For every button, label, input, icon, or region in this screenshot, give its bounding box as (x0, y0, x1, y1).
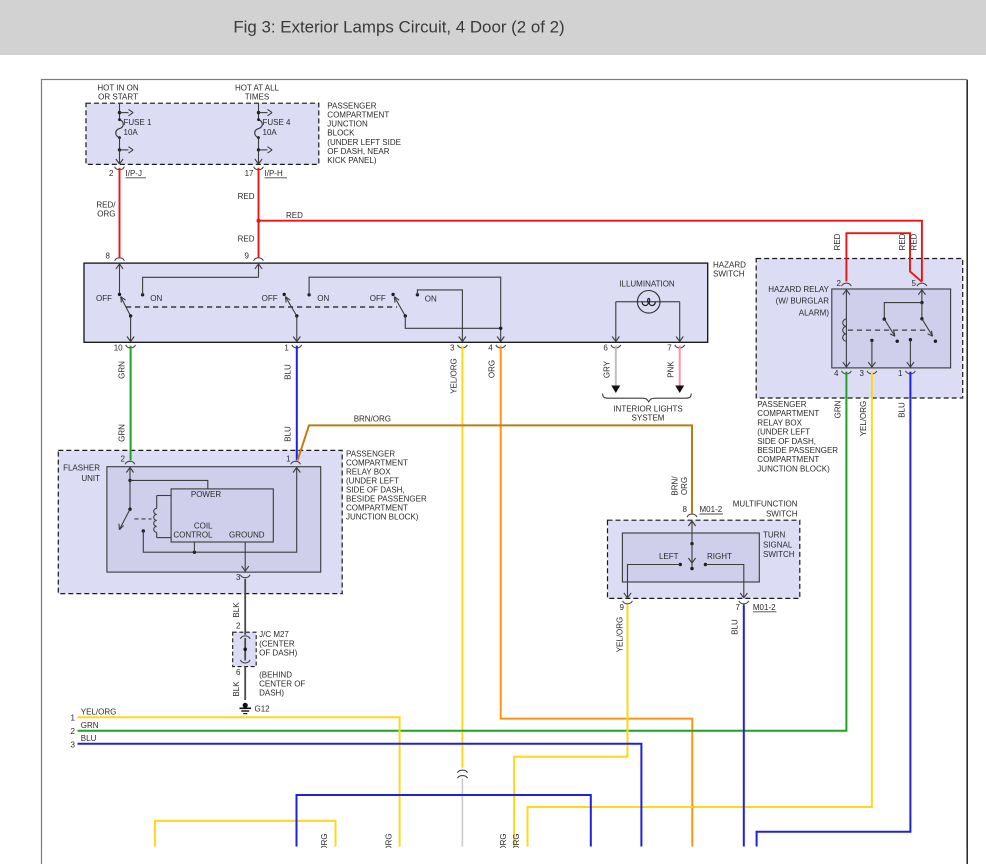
fuse F4 (255, 103, 272, 164)
svg-text:CENTER OF: CENTER OF (259, 680, 305, 689)
svg-text:4: 4 (834, 369, 839, 378)
wire GRN relay pin4 to line 2 (78, 372, 847, 731)
label TURN SIGNAL SWITCH (763, 530, 795, 559)
svg-text:(W/ BURGLAR: (W/ BURGLAR (776, 297, 830, 306)
svg-text:9: 9 (620, 603, 625, 612)
svg-text:HAZARD: HAZARD (713, 260, 746, 269)
svg-text:HOT AT ALL: HOT AT ALL (235, 84, 280, 93)
relay pin3 column (868, 339, 875, 368)
wire RED loop pin2 to pin5 (833, 233, 922, 282)
blue bridge wire (297, 795, 591, 847)
svg-text:DASH): DASH) (259, 689, 284, 698)
left contact to pin 9 (624, 563, 682, 598)
svg-text:PNK: PNK (667, 361, 676, 378)
flasher pin 1 (286, 455, 300, 465)
svg-text:MULTIFUNCTION: MULTIFUNCTION (733, 499, 798, 508)
junction block note (327, 101, 401, 165)
svg-text:1: 1 (284, 343, 289, 352)
relay pin 2 (837, 279, 852, 288)
svg-text:HAZARD RELAY: HAZARD RELAY (768, 285, 829, 294)
svg-text:2: 2 (837, 279, 842, 288)
svg-text:ORG: ORG (488, 360, 497, 378)
svg-text:FUSE 4: FUSE 4 (263, 118, 292, 127)
svg-text:CONTROL: CONTROL (173, 531, 213, 540)
flasher switch (119, 480, 145, 532)
wire ORG pin4 down right down (488, 346, 693, 847)
svg-text:(UNDER LEFT: (UNDER LEFT (757, 428, 810, 437)
lamp leads to pins 6 and 7 (612, 302, 683, 342)
svg-text:BRN/ORG: BRN/ORG (354, 415, 391, 424)
relay switch A (883, 289, 926, 343)
behind dash note (259, 671, 305, 698)
flasher dashed link (135, 518, 152, 520)
svg-text:GRN: GRN (833, 400, 842, 418)
line 2 GRN (71, 721, 99, 736)
wire BLU relay pin1 (757, 372, 911, 847)
svg-text:ON: ON (317, 294, 329, 303)
svg-text:(UNDER LEFT: (UNDER LEFT (346, 477, 399, 486)
svg-text:SWITCH: SWITCH (713, 270, 745, 279)
line 1 YEL/ORG (71, 707, 400, 846)
svg-text:BLU: BLU (284, 364, 293, 380)
svg-text:3: 3 (450, 343, 455, 352)
svg-text:BLOCK: BLOCK (327, 129, 355, 138)
flasher power relay box (173, 490, 264, 540)
svg-text:OF DASH, NEAR: OF DASH, NEAR (327, 147, 389, 156)
svg-text:BLK: BLK (232, 602, 241, 618)
svg-text:OF DASH): OF DASH) (259, 649, 298, 658)
junction connector J/C M27 (240, 636, 250, 663)
wire RED/ORG fuse1 to hazard pin 8 (96, 168, 119, 258)
svg-text:8: 8 (683, 505, 688, 514)
faded wire continuation (461, 779, 463, 847)
svg-text:PASSENGER: PASSENGER (346, 450, 395, 459)
svg-text:ORG: ORG (97, 210, 115, 219)
flasher pin 2 (121, 455, 135, 481)
svg-text:RED: RED (898, 233, 907, 250)
relay pin1 column (907, 338, 914, 368)
relay coil line pin2-pin4 (843, 289, 850, 368)
J/C M27 note (259, 630, 298, 658)
wire GRY pin6 (603, 346, 621, 393)
flasher power relay box frame (171, 489, 273, 542)
svg-text:7: 7 (667, 343, 672, 352)
svg-text:COMPARTMENT: COMPARTMENT (346, 459, 408, 468)
svg-text:TIMES: TIMES (245, 93, 269, 102)
relay box note (757, 400, 838, 474)
svg-text:G12: G12 (255, 705, 271, 714)
bottom wire labels (320, 833, 521, 851)
svg-text:RED: RED (238, 235, 255, 244)
svg-text:5: 5 (912, 279, 917, 288)
bottom clip (42, 848, 966, 864)
coil control junction (193, 542, 196, 554)
hazard pin 3 (450, 343, 467, 352)
svg-text:YEL/ORG: YEL/ORG (859, 401, 868, 437)
svg-text:BLK: BLK (232, 681, 241, 697)
svg-text:1: 1 (898, 369, 903, 378)
svg-text:10A: 10A (263, 128, 278, 137)
svg-text:LEFT: LEFT (659, 552, 679, 561)
wire RED junction to hazard relay pin 5 (259, 211, 922, 282)
connector 2 I/P-J (109, 167, 146, 178)
svg-text:8: 8 (106, 252, 111, 261)
connector 8 M01-2 (683, 505, 723, 517)
relay switch B (920, 303, 937, 343)
wire YEL/ORG relay pin3 (528, 372, 872, 847)
svg-text:4: 4 (488, 343, 493, 352)
svg-text:BESIDE PASSENGER: BESIDE PASSENGER (346, 495, 427, 504)
hazard pin 8 (106, 252, 125, 295)
svg-text:SWITCH: SWITCH (763, 550, 795, 559)
svg-text:BESIDE PASSENGER: BESIDE PASSENGER (757, 446, 838, 455)
svg-text:RED: RED (286, 211, 303, 220)
svg-text:SIDE OF DASH,: SIDE OF DASH, (346, 486, 405, 495)
svg-text:RED: RED (833, 233, 842, 250)
sw1 blade to pin 10 (127, 316, 134, 342)
line 3 BLU (71, 734, 642, 847)
svg-text:17: 17 (245, 169, 254, 178)
svg-text:Fig 3: Exterior Lamps Circuit,: Fig 3: Exterior Lamps Circuit, 4 Door (2… (233, 18, 564, 37)
svg-text:PASSENGER: PASSENGER (327, 101, 376, 110)
wire PNK pin7 (667, 346, 685, 393)
svg-text:6: 6 (236, 668, 241, 677)
svg-text:10A: 10A (124, 128, 139, 137)
turn signal pole (688, 520, 695, 570)
flasher contact to pin1 link (143, 467, 300, 553)
wire BLU pin1 to flasher pin 1 (284, 346, 297, 461)
svg-text:1: 1 (71, 714, 76, 723)
flasher unit outer box (58, 450, 342, 593)
svg-text:(CENTER: (CENTER (259, 639, 295, 648)
hazard pin 7 (667, 343, 684, 352)
connector 9 (620, 601, 633, 612)
svg-text:RED: RED (910, 233, 919, 250)
connector 17 I/P-H (245, 167, 287, 178)
hazard relay outer box (756, 259, 963, 399)
brace interior lights (603, 394, 692, 423)
svg-text:M01-2: M01-2 (753, 603, 776, 612)
svg-text:(BEHIND: (BEHIND (259, 671, 292, 680)
hazard pin 6 (603, 343, 620, 352)
svg-text:3: 3 (236, 573, 241, 582)
svg-text:2: 2 (109, 169, 114, 178)
svg-text:OFF: OFF (370, 294, 386, 303)
relay box note (flasher) (346, 450, 427, 522)
svg-text:ON: ON (150, 294, 162, 303)
label HAZARD RELAY (768, 285, 829, 318)
svg-text:BLU: BLU (897, 402, 906, 418)
svg-text:OFF: OFF (96, 294, 112, 303)
sw2 ON to pin 4 column (309, 277, 504, 341)
sw1 ON to pin 9 column (143, 277, 259, 295)
label HAZARD SWITCH (713, 260, 746, 278)
svg-text:BRN/: BRN/ (671, 476, 680, 496)
relay pin 5 (912, 279, 927, 288)
svg-text:ORG: ORG (680, 477, 689, 495)
relay pin 4 (834, 369, 851, 378)
svg-text:FUSE 1: FUSE 1 (124, 118, 153, 127)
svg-text:RED: RED (238, 192, 255, 201)
svg-text:RIGHT: RIGHT (707, 552, 732, 561)
svg-text:7: 7 (736, 603, 741, 612)
svg-text:(UNDER LEFT SIDE: (UNDER LEFT SIDE (327, 138, 401, 147)
label FLASHER UNIT (63, 464, 100, 483)
turn signal switch inner box (622, 533, 759, 582)
svg-text:COMPARTMENT: COMPARTMENT (757, 455, 819, 464)
hazard relay inner box (832, 289, 951, 368)
passenger compartment junction block (fuse box) (86, 103, 319, 164)
svg-text:ALARM): ALARM) (799, 309, 830, 318)
svg-text:I/P-J: I/P-J (126, 169, 142, 178)
hazard pin 1 (284, 343, 301, 352)
svg-text:BLU: BLU (81, 734, 97, 743)
flasher pin 3 (236, 573, 250, 582)
label MULTIFUNCTION SWITCH (733, 499, 798, 518)
wire BRN/ORG flasher pin1 to multifunction pin 8 (298, 415, 693, 514)
flasher coil (154, 496, 171, 538)
svg-text:GRY: GRY (603, 360, 612, 378)
svg-text:RELAY BOX: RELAY BOX (346, 468, 391, 477)
svg-text:2: 2 (236, 622, 241, 631)
yellow bridge wire (155, 821, 336, 847)
flasher inner box (107, 467, 321, 572)
wire BLK flasher pin3 to J/C M27 (232, 579, 245, 635)
mechanical link dashes (126, 306, 397, 308)
svg-text:KICK PANEL): KICK PANEL) (327, 156, 377, 165)
fuse F1 (116, 103, 133, 164)
relay pin 1 (898, 369, 915, 378)
svg-text:ON: ON (425, 294, 437, 303)
svg-text:POWER: POWER (191, 490, 221, 499)
svg-text:COMPARTMENT: COMPARTMENT (327, 110, 389, 119)
junction RED (257, 219, 261, 223)
svg-text:6: 6 (603, 343, 608, 352)
svg-text:3: 3 (71, 740, 76, 749)
svg-text:PASSENGER: PASSENGER (757, 400, 806, 409)
ground G12 (240, 703, 271, 714)
wire BLK to ground (232, 667, 245, 701)
svg-text:10: 10 (114, 343, 123, 352)
svg-text:INTERIOR LIGHTS: INTERIOR LIGHTS (613, 405, 682, 414)
svg-text:J/C M27: J/C M27 (259, 630, 289, 639)
illumination lamp (616, 279, 680, 313)
svg-text:SYSTEM: SYSTEM (632, 414, 665, 423)
svg-text:OR START: OR START (98, 93, 138, 102)
sw3 ON to pin 3 (417, 290, 466, 342)
wire RED fuse4 to hazard pin 9 (238, 168, 259, 258)
svg-text:BLU: BLU (731, 619, 740, 635)
svg-text:ILLUMINATION: ILLUMINATION (619, 279, 675, 288)
wire BLU pin7 down (731, 605, 744, 847)
hazard pin 9 (245, 252, 264, 278)
svg-text:2: 2 (71, 727, 76, 736)
svg-text:GRN: GRN (81, 721, 99, 730)
svg-text:JUNCTION BLOCK): JUNCTION BLOCK) (757, 464, 830, 473)
svg-text:9: 9 (245, 252, 250, 261)
svg-text:JUNCTION BLOCK): JUNCTION BLOCK) (346, 513, 419, 522)
wire YEL/ORG pin3 down (449, 346, 462, 768)
multifunction switch outer box (608, 520, 800, 598)
svg-text:JUNCTION: JUNCTION (327, 120, 368, 129)
svg-text:FLASHER: FLASHER (63, 464, 100, 473)
svg-text:GRN: GRN (118, 361, 127, 379)
svg-text:YEL/ORG: YEL/ORG (616, 617, 625, 653)
svg-text:SWITCH: SWITCH (766, 510, 798, 519)
ground terminal to pin 3 (242, 542, 249, 572)
label LEFT RIGHT (659, 552, 732, 561)
flasher feed junction (128, 479, 208, 489)
svg-text:YEL/ORG: YEL/ORG (81, 707, 117, 716)
svg-text:YEL/ORG: YEL/ORG (449, 358, 458, 394)
svg-text:3: 3 (859, 369, 864, 378)
wire GRN pin10 to flasher pin 2 (118, 346, 131, 461)
label HOT AT ALL TIMES (235, 84, 280, 102)
svg-text:SIGNAL: SIGNAL (763, 540, 793, 549)
svg-text:M01-2: M01-2 (700, 505, 723, 514)
svg-text:HOT IN ON: HOT IN ON (97, 84, 138, 93)
svg-text:OFF: OFF (262, 294, 278, 303)
svg-text:RED/: RED/ (96, 201, 116, 210)
svg-text:GRN: GRN (118, 424, 127, 442)
break symbol on YEL/ORG (458, 770, 468, 778)
junction connector box J/C M27 (233, 632, 257, 666)
svg-text:SIDE OF DASH,: SIDE OF DASH, (757, 437, 816, 446)
label HOT IN ON OR START (97, 84, 138, 102)
sw3 blade to pin4 column junction (405, 316, 502, 330)
svg-text:COMPARTMENT: COMPARTMENT (757, 409, 819, 418)
right contact to pin 7 (704, 563, 748, 598)
sw2 blade to pin 1 (293, 316, 300, 342)
hazard pin 10 (114, 343, 136, 352)
connector 7 M01-2 (736, 601, 777, 612)
svg-text:BLU: BLU (284, 426, 293, 442)
svg-text:UNIT: UNIT (81, 474, 100, 483)
relay dashed link (848, 329, 926, 331)
svg-text:COIL: COIL (194, 521, 213, 530)
hazard switch box (84, 263, 708, 342)
svg-text:1: 1 (286, 455, 291, 464)
svg-text:RELAY BOX: RELAY BOX (757, 418, 802, 427)
relay pin 3 (859, 369, 876, 378)
svg-text:I/P-H: I/P-H (265, 169, 283, 178)
title bar (0, 0, 986, 55)
wire YEL/ORG pin9 down (514, 605, 627, 847)
svg-text:GROUND: GROUND (229, 531, 265, 540)
svg-text:COMPARTMENT: COMPARTMENT (346, 504, 408, 513)
hazard pin 4 (488, 343, 505, 352)
svg-text:TURN: TURN (763, 530, 785, 539)
svg-text:2: 2 (121, 455, 126, 464)
